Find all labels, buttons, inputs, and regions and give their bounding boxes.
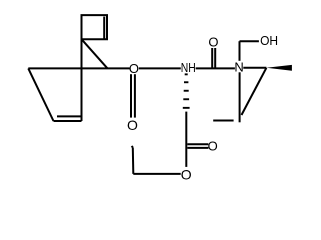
wire C3 methyl bond bbox=[213, 120, 233, 122]
svg-text:O: O bbox=[208, 34, 218, 49]
wire N right bond to C2 bbox=[243, 67, 266, 69]
svg-text:N: N bbox=[234, 59, 243, 74]
wire ester O to CH2 bond bbox=[133, 173, 180, 175]
svg-text:O: O bbox=[208, 139, 218, 154]
wire CH2 to OH bond bbox=[240, 40, 259, 42]
ester C=O double bond right bbox=[187, 143, 208, 145]
wire main chain horizontal left bbox=[28, 67, 130, 69]
wire cyclopentene bottom bond bbox=[54, 120, 82, 122]
wire aziridine C2-C3 diagonal bond bbox=[242, 68, 267, 115]
wire ester chain vertical bond bbox=[185, 112, 187, 167]
wire NH to carbonyl to N bond bbox=[196, 67, 235, 69]
svg-text:O: O bbox=[181, 167, 192, 183]
wire spiro diagonal bond C4-C5 bbox=[82, 39, 108, 68]
wire spiro vertical bond C4-C3 bbox=[81, 39, 83, 121]
cyclopentene double bond inner line bbox=[57, 115, 81, 117]
wire cyclopentene diagonal bond bbox=[28, 68, 53, 121]
wire CH3 nub bbox=[132, 146, 133, 147]
cyclobutene double bond inner line bbox=[103, 17, 105, 39]
wire N up bond to CH2 bbox=[239, 41, 241, 61]
cyclobutene ring square bbox=[82, 15, 108, 39]
carbamate C=O double bond down bbox=[130, 74, 132, 117]
wire O to NH bond bbox=[139, 67, 181, 69]
svg-text:NH: NH bbox=[181, 60, 196, 75]
stereo wedge bond C2 methyl bbox=[266, 65, 292, 71]
svg-text:O: O bbox=[127, 117, 138, 133]
stereo hash bond below NH bbox=[183, 73, 190, 108]
wire CH2 to CH3 bond bbox=[132, 147, 135, 174]
ureido C=O double bond up bbox=[211, 48, 213, 68]
wire N down bond to C3 bbox=[239, 72, 241, 122]
svg-text:O: O bbox=[129, 61, 139, 76]
svg-text:OH: OH bbox=[260, 33, 278, 48]
